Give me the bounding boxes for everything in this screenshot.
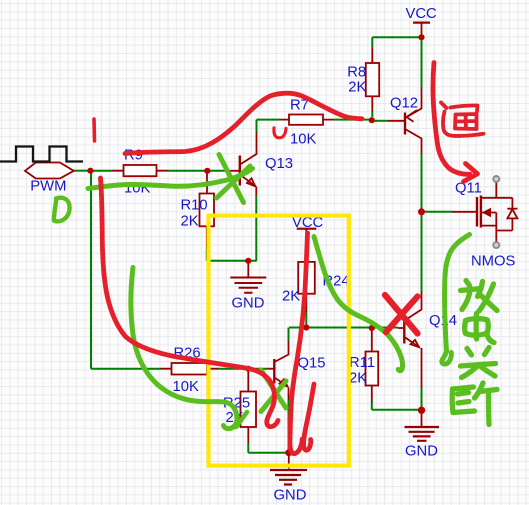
svg-text:2K: 2K — [282, 289, 300, 305]
svg-text:10K: 10K — [173, 379, 199, 395]
svg-text:Q11: Q11 — [455, 181, 482, 197]
svg-text:GND: GND — [232, 296, 265, 312]
svg-text:2K: 2K — [348, 80, 366, 96]
svg-text:2K: 2K — [181, 214, 199, 230]
svg-text:Q12: Q12 — [390, 96, 418, 112]
svg-text:GND: GND — [274, 488, 307, 504]
svg-text:NMOS: NMOS — [471, 254, 516, 270]
svg-text:Q15: Q15 — [298, 356, 326, 372]
svg-text:GND: GND — [405, 444, 438, 460]
svg-text:VCC: VCC — [406, 6, 438, 22]
svg-text:10K: 10K — [290, 132, 316, 148]
svg-text:R10: R10 — [181, 198, 208, 214]
svg-text:R11: R11 — [349, 355, 375, 371]
svg-text:Q13: Q13 — [265, 156, 293, 172]
svg-text:R8: R8 — [347, 65, 366, 81]
svg-text:2K: 2K — [349, 371, 367, 387]
svg-text:PWM: PWM — [30, 179, 66, 195]
